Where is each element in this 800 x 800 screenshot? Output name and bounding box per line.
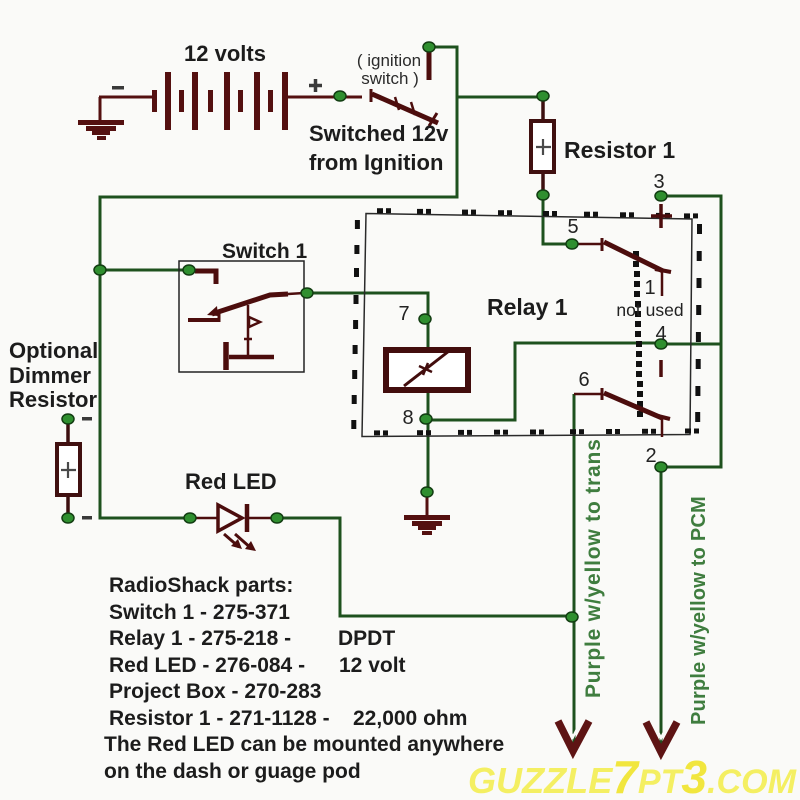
svg-text:on the dash or guage pod: on the dash or guage pod — [104, 760, 361, 783]
svg-text:Dimmer: Dimmer — [9, 363, 91, 388]
svg-text:( ignition: ( ignition — [357, 51, 421, 70]
svg-text:Switched 12v: Switched 12v — [309, 121, 449, 146]
svg-text:Red LED: Red LED — [185, 469, 277, 494]
svg-text:Red LED - 276-084 -12 volt: Red LED - 276-084 -12 volt — [109, 654, 406, 677]
svg-text:Switch 1: Switch 1 — [222, 240, 308, 263]
svg-text:4: 4 — [655, 323, 666, 345]
svg-text:Relay 1 - 275-218 -DPDT: Relay 1 - 275-218 -DPDT — [109, 627, 395, 650]
svg-text:The Red LED can be mounted any: The Red LED can be mounted anywhere — [104, 733, 504, 756]
svg-text:2: 2 — [645, 445, 656, 467]
svg-text:not used: not used — [616, 300, 683, 320]
svg-text:Resistor 1: Resistor 1 — [564, 137, 675, 163]
svg-text:12 volts: 12 volts — [184, 41, 266, 66]
svg-text:1: 1 — [644, 277, 655, 299]
svg-text:5: 5 — [567, 216, 578, 238]
svg-text:6: 6 — [578, 369, 589, 391]
svg-text:Relay 1: Relay 1 — [487, 294, 568, 320]
svg-text:RadioShack parts:: RadioShack parts: — [109, 574, 293, 597]
svg-text:Project Box - 270-283: Project Box - 270-283 — [109, 680, 321, 703]
svg-text:3: 3 — [653, 171, 664, 193]
svg-text:7: 7 — [398, 303, 409, 325]
svg-text:Purple w/yellow to PCM: Purple w/yellow to PCM — [688, 496, 710, 725]
svg-text:Resistor: Resistor — [9, 387, 97, 412]
svg-text:switch ): switch ) — [361, 69, 419, 88]
svg-text:from Ignition: from Ignition — [309, 150, 443, 175]
svg-text:Optional: Optional — [9, 338, 98, 363]
svg-text:8: 8 — [402, 407, 413, 429]
svg-text:Resistor 1 - 271-1128 -22,000: Resistor 1 - 271-1128 -22,000 ohm — [109, 707, 467, 730]
svg-text:Switch 1 - 275-371: Switch 1 - 275-371 — [109, 601, 290, 624]
svg-text:Purple w/yellow to trans: Purple w/yellow to trans — [582, 438, 605, 698]
